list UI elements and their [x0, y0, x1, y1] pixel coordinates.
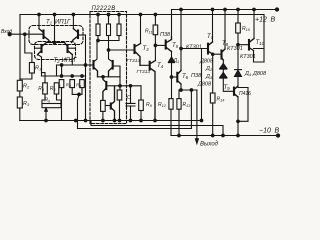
resistor module1 [96, 24, 100, 36]
wire node120 to R10 via cap node [120, 85, 141, 87]
node module res2 rail [107, 13, 110, 16]
node T1b collector rail [72, 13, 75, 16]
node T6 emitter [180, 89, 183, 92]
node T10 base [237, 43, 240, 46]
svg-text:+12: +12 [255, 17, 267, 24]
resistor module2 [107, 24, 111, 36]
transistor T8 [220, 51, 222, 59]
wire R5top up [56, 65, 58, 76]
node bus module res4 [102, 119, 105, 122]
wire rail2 tail down to T2 bus [54, 15, 56, 43]
wire D4 up to T10 base node [237, 45, 239, 70]
terminal input [8, 33, 11, 36]
node line B rail [222, 134, 225, 137]
diode D3 [220, 73, 227, 78]
wire module res1 top [97, 15, 99, 25]
svg-text:R6: R6 [45, 98, 52, 104]
wire module res5 bottom [119, 100, 121, 121]
transistor T6 [176, 73, 178, 82]
resistor R10 [139, 100, 144, 111]
node rail2 tail [53, 13, 56, 16]
svg-text:Т3: Т3 [143, 46, 150, 52]
svg-text:КТ301: КТ301 [186, 45, 202, 51]
transistor T10 [248, 40, 250, 50]
svg-text:R14: R14 [217, 97, 225, 103]
wire return line B [91, 121, 223, 136]
wire input to T1 base [10, 33, 44, 35]
wire R10 bottom [140, 111, 142, 121]
wire bottom bus y120.5 [20, 120, 202, 122]
node bus capacitor [129, 119, 132, 122]
wire bottom rail [171, 135, 278, 137]
wire R14 top lead [212, 54, 214, 93]
node T7 coll rail [211, 8, 214, 11]
transistor T9 [233, 88, 235, 95]
wire rail2 left leg to R2 [19, 15, 21, 81]
wire R4 top [42, 73, 46, 83]
transistor module lower2 [110, 104, 112, 109]
wire module top bus [97, 40, 119, 42]
wire module lower2 base stub [106, 105, 111, 107]
node R14 rail [211, 134, 214, 137]
resistor module5 [117, 90, 122, 100]
svg-text:В: В [271, 17, 276, 24]
wire R4 bottom to pot [42, 94, 45, 104]
transistor module pairB [112, 61, 114, 69]
wire T2a emitter down [39, 55, 42, 76]
node T7e R14 junction [212, 53, 214, 55]
wire T3 emitter line to T4 base [140, 64, 150, 66]
node T10 coll rail [253, 8, 256, 11]
resistor module3 [117, 24, 121, 36]
wire module emitter bus [98, 76, 121, 78]
transistor T3 [133, 45, 135, 53]
transistor module pairA [92, 61, 94, 69]
node U tap [78, 93, 81, 96]
svg-text:−10: −10 [259, 128, 271, 135]
node T6e wire 191.4 [190, 89, 193, 92]
wire T7 base down to bus [201, 49, 203, 121]
svg-text:П416: П416 [239, 91, 251, 97]
svg-text:R13: R13 [183, 102, 192, 108]
svg-text:R8: R8 [66, 83, 71, 89]
diode D4 zener [235, 70, 242, 76]
resistor R4 [43, 83, 48, 94]
wire R14 bottom lead [212, 103, 214, 136]
svg-text:Д3: Д3 [205, 74, 213, 80]
wire R12 bottom [170, 109, 172, 135]
wire T5 emitter down [171, 52, 173, 58]
wire T9 collector loop [238, 88, 248, 122]
svg-text:Т2: Т2 [54, 58, 61, 64]
transistor T5 [165, 41, 167, 49]
wire T1b collector to rail2 [72, 15, 74, 29]
node cap tap [129, 85, 132, 88]
svg-text:Т6: Т6 [182, 74, 189, 80]
wire T6 base [172, 76, 178, 78]
wire T6e node left to R13 [179, 89, 197, 91]
wire 61.6 down [61, 65, 63, 76]
wire ebus right corner down [119, 77, 121, 90]
svg-text:R3: R3 [23, 101, 30, 107]
capacitor C lead bottom [130, 106, 132, 121]
wire D2 to D3 [222, 69, 224, 72]
resistor module4 [101, 100, 106, 111]
wire R5 bottom to pot [57, 94, 62, 104]
node T6 base [170, 76, 173, 79]
wire U tap down [78, 94, 80, 128]
output arrow head [195, 139, 198, 144]
svg-text:Д2: Д2 [205, 66, 213, 72]
wire return line C [78, 128, 192, 130]
node rail R13 [178, 134, 181, 137]
resistor R15 [236, 23, 241, 33]
wire R15 top [237, 10, 239, 24]
node T3 collector [139, 13, 142, 16]
wire T4 collector to R11 [154, 35, 156, 61]
node bus module res5 [118, 119, 121, 122]
dashed module box [90, 12, 127, 124]
wire input node down to R1 [25, 34, 32, 62]
svg-text:КТ301: КТ301 [227, 46, 243, 52]
node T6 coll rail [180, 8, 183, 11]
wire T6 collector up [180, 10, 182, 71]
wire T10 emitter box [254, 49, 265, 63]
transistor T7 [207, 44, 209, 54]
svg-text:Т5: Т5 [172, 43, 179, 49]
wire 191.4 down to line C [190, 90, 192, 129]
resistor R8 [70, 80, 75, 88]
node module node120 [119, 85, 122, 88]
node module res3 rail [118, 13, 121, 16]
transistor module lower1 [105, 82, 107, 89]
svg-text:ГТ313: ГТ313 [127, 58, 141, 64]
wire T8 collector [224, 10, 226, 50]
svg-text:R12: R12 [158, 102, 167, 108]
svg-text:Д808: Д808 [197, 82, 212, 88]
wire module pairB collector [109, 41, 113, 63]
svg-text:С: С [127, 95, 131, 101]
node bus R10 [140, 119, 143, 122]
wire R2 to R3 [19, 91, 21, 97]
node R6 wiper on common [45, 119, 48, 122]
wire R13 top lead [178, 90, 180, 99]
node module pairB tap [107, 49, 110, 52]
svg-text:R9: R9 [146, 102, 153, 108]
wire T2 collector bus [47, 42, 65, 44]
svg-text:R15: R15 [242, 26, 251, 32]
transistor T2b [66, 45, 68, 52]
wire R10 top lead [140, 86, 142, 100]
svg-text:ИП1Г: ИП1Г [55, 20, 71, 26]
svg-text:Д4: Д4 [244, 71, 252, 77]
wire rail2 right leg [263, 15, 265, 63]
node bus 82 [81, 75, 84, 78]
wire R3 bottom corner to common line [19, 108, 21, 121]
wire T5 base [155, 44, 165, 46]
potentiometer R6 [42, 104, 61, 108]
node bus T4 emitter [154, 119, 157, 122]
wire R11 top [154, 15, 156, 26]
node bus 72.2 [71, 75, 74, 78]
resistor R13 [177, 99, 181, 110]
node bus tap A [74, 119, 77, 122]
wire rail2 top [20, 14, 264, 16]
node bus feedback [84, 119, 87, 122]
svg-text:П38: П38 [191, 73, 202, 79]
wire D3 to T9 base [223, 78, 234, 91]
resistor R12 [169, 99, 173, 110]
wire T8 emitter to D2 [222, 60, 224, 65]
wire base line y65 to module [57, 64, 94, 66]
wire R7 bottom [61, 88, 63, 121]
resistor R1 [29, 63, 34, 74]
wire T1b base to feedback line [78, 34, 86, 36]
node T8 coll rail [224, 8, 227, 11]
svg-text:R9: R9 [76, 83, 81, 89]
svg-text:Д808: Д808 [252, 71, 267, 77]
transistor T4 [149, 62, 151, 70]
node T7 base bus [200, 119, 203, 122]
wire T7 base feed [181, 48, 208, 50]
wire module res bottoms to bus [98, 36, 119, 41]
wire module pairB base [113, 66, 120, 77]
wire R1 bottom to R2 top node [20, 73, 32, 79]
wire R8 R9a U link [72, 88, 82, 95]
wire T2b emitter down [71, 55, 73, 66]
wire feedback vertical [85, 35, 87, 121]
svg-text:Д808: Д808 [199, 59, 214, 65]
wire module pairA base [90, 64, 94, 66]
svg-text:ИП1Г: ИП1Г [62, 58, 78, 64]
svg-text:ГТ313: ГТ313 [137, 69, 151, 75]
terminal -10V [276, 134, 279, 137]
svg-text:Д1: Д1 [173, 58, 180, 64]
resistor R11 [153, 25, 158, 35]
node module res1 rail [97, 13, 100, 16]
node T2 bus center [53, 41, 56, 44]
resistor R3 [17, 97, 22, 108]
transistor T1b [77, 31, 79, 39]
wire T6 emitter node [180, 84, 182, 90]
resistor R5 [54, 83, 59, 94]
node R11 rail [154, 13, 157, 16]
svg-text:R1: R1 [35, 66, 41, 72]
wire module pairA collector [94, 41, 98, 63]
svg-text:R11: R11 [145, 29, 153, 35]
wire R15 bottom to T10 base [238, 33, 249, 45]
wire T7 emitter to T8 base [213, 53, 222, 55]
svg-text:П38: П38 [160, 32, 171, 38]
wire T3 collector to rail2 [140, 15, 142, 44]
capacitor C plates [126, 103, 135, 106]
node T1a collector rail [38, 13, 41, 16]
wire D1 to T6 base node [171, 63, 173, 99]
wiper R6 arrow [45, 110, 47, 121]
node module ebus [102, 76, 105, 79]
wire module lower1 base [106, 85, 120, 87]
wire R13 bottom [178, 109, 180, 135]
wire T9 emitter down [237, 97, 239, 136]
wire module res3 top [118, 15, 120, 25]
node y65 at 61.6 [60, 64, 63, 67]
wire module out to T3 base [109, 49, 135, 51]
node T5 base junction [154, 44, 157, 47]
svg-text:R2: R2 [23, 84, 30, 90]
wire T7 collector [212, 10, 214, 43]
node module bus [97, 39, 100, 42]
wire resistor-top bus [42, 75, 86, 77]
capacitor C lead top [130, 86, 132, 104]
svg-text:Т1: Т1 [46, 20, 53, 26]
wire T2b base stub [68, 47, 75, 49]
resistor R7 [59, 80, 64, 88]
terminal +12V [275, 8, 278, 11]
node feedback cross y65 [84, 64, 87, 67]
wire +12 corner leg to T5 [171, 10, 173, 38]
svg-text:Выход: Выход [200, 142, 219, 148]
diode D2 [220, 64, 227, 69]
dashed pair box T1 [29, 26, 83, 45]
wire T10 collector [253, 10, 255, 39]
wire +12V top rail [172, 9, 278, 11]
node input junction [24, 33, 27, 36]
transistor T2a [40, 45, 42, 52]
dashed pair box T2 [35, 42, 76, 60]
wire output from T6e [196, 90, 198, 139]
diode D1 [169, 57, 175, 62]
wire T2a base stub [36, 47, 42, 49]
transistor T1a [42, 31, 44, 39]
node R15 rail [237, 8, 240, 11]
wire module res2 top [108, 15, 110, 25]
resistor R2 [17, 80, 22, 91]
svg-text:Т10: Т10 [256, 40, 265, 46]
wire module res4 bottom [102, 111, 104, 120]
node T9 emitter rail [237, 134, 240, 137]
node bus 61.5 [60, 75, 63, 78]
resistor R9a [80, 80, 85, 88]
wire T9 collector to D4 [237, 76, 239, 86]
resistor R14 [210, 93, 215, 103]
svg-text:В: В [275, 128, 280, 135]
node bus module emitter [113, 119, 116, 122]
wire T1a collector to rail2 [38, 15, 40, 29]
node T7 base feed [180, 47, 183, 50]
svg-text:Т9: Т9 [224, 85, 231, 91]
svg-text:Т4: Т4 [157, 63, 164, 69]
node T9 loop join [237, 120, 240, 123]
